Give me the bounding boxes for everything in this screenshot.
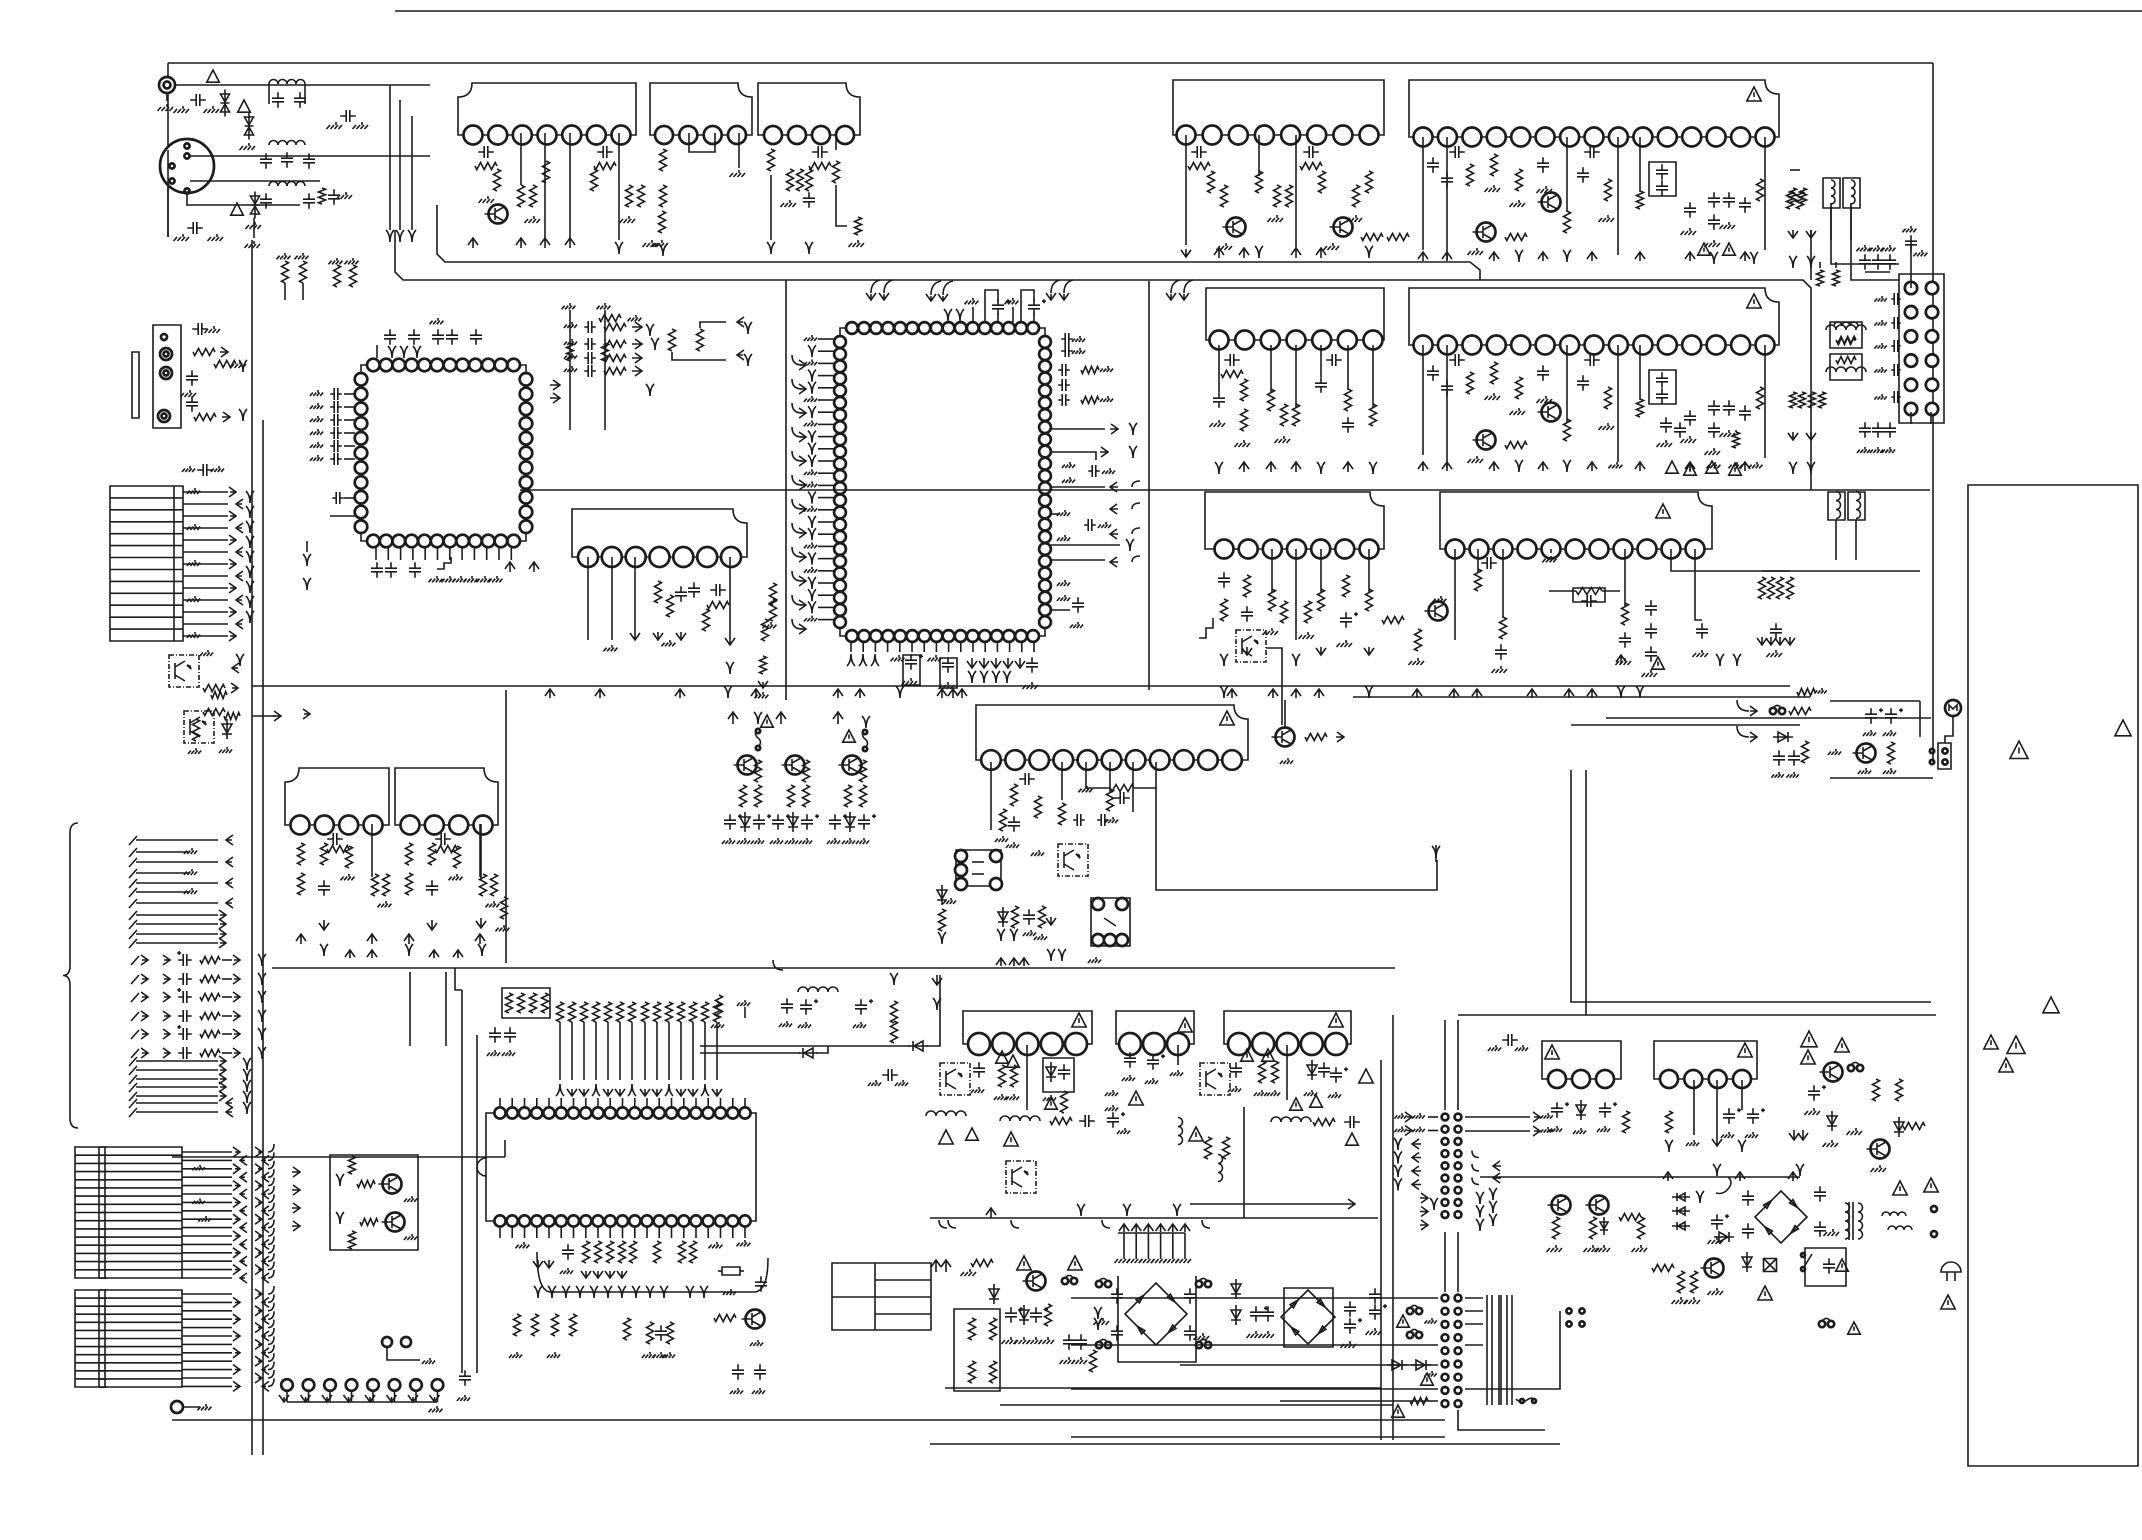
wire arrow [387,1395,397,1402]
IC IC402 body [1116,1011,1194,1044]
capacitor C102 [330,414,342,426]
CN3 key ticks [99,1290,107,1387]
ground [804,506,817,512]
capacitor C44 [1441,172,1453,188]
ground [1163,1256,1179,1263]
wire fork [767,242,775,254]
wire arrow [273,711,281,721]
wire fork [744,322,752,334]
ground [1210,420,1226,427]
wire hook [268,1303,274,1311]
wire [136,1095,218,1097]
inductor Lx7 [1888,1226,1912,1230]
wire [609,1227,611,1238]
resistor R84 [1836,337,1856,344]
wire [935,642,937,652]
wire [818,521,834,523]
wire fork [754,712,762,724]
wire [818,338,834,340]
wire [930,1217,1378,1219]
ground [231,361,247,368]
wire arrow [1587,252,1597,261]
wire [136,902,218,904]
resistor R166 [939,909,946,931]
wire fork [303,554,311,566]
warning symbol [1999,1058,2013,1072]
wire [818,533,834,535]
ground [245,241,261,248]
wire [344,497,355,499]
resistor R113 [334,265,341,287]
warning symbol [761,715,774,727]
wire arrow [799,408,806,418]
wire branch [1184,280,1193,293]
wire arrow [233,1029,240,1039]
line start [129,1092,137,1101]
ground [1883,768,1896,774]
wire [1132,762,1134,812]
resistor R36 [990,1318,997,1340]
wire fork [726,662,734,674]
resistor R74 [1370,404,1377,426]
ground [562,303,576,309]
fuse F7 [1196,1339,1211,1348]
capacitor C116 [1061,333,1073,345]
ground [1217,243,1233,250]
wire [1071,1436,1445,1438]
capacitor C2 [272,92,284,108]
wire arrow [262,1273,269,1283]
inductor Lx8 [1831,180,1835,204]
wire [287,1401,437,1403]
resistor R44 [1256,171,1263,193]
resistor R101 [1500,617,1507,639]
wire arrow [1538,252,1548,261]
capacitor C90 [1770,623,1782,639]
resistor R62 [1797,191,1804,209]
resistor R144 [406,843,413,865]
inductor Lx9 [1851,180,1855,204]
wire arrow [476,918,486,928]
wire arrow [292,1185,300,1195]
capacitor C50 [1684,202,1696,218]
wire arrow [262,1314,269,1324]
diode D21 [998,907,1008,927]
resistor R37 [969,1361,976,1383]
ground [604,645,618,651]
wire arrow [931,1260,941,1272]
wire fork [1738,1140,1746,1152]
wire [744,1007,746,1018]
wire [818,570,834,572]
resistor R202 [619,1241,626,1263]
wire arrow [1110,482,1118,492]
capacitor C12 [478,146,494,158]
capacitor C133 [426,880,438,896]
ground [205,326,221,333]
bridge rectifier BR1 [1125,1283,1187,1345]
wire arrow [550,393,560,403]
wire arrow [758,681,768,688]
wire [166,93,168,101]
resistor R85 [1836,357,1856,364]
ground [489,576,503,582]
wire branch [792,379,802,389]
wire [182,1218,232,1220]
wire fork [808,528,816,540]
ground [310,416,323,422]
wire [836,185,847,226]
resistor R21 [193,349,215,356]
wire [372,1391,374,1402]
wire arrow [279,1395,289,1402]
capacitor C144 [1097,814,1109,826]
wire [926,975,940,1046]
wire arrow [344,1395,354,1402]
resistor R116 [300,261,307,283]
resistor R130 [707,602,729,609]
capacitor C165 [754,1364,766,1380]
capacitor C27 [1030,1307,1048,1323]
capacitor C75 [1708,400,1720,416]
ground [429,576,443,582]
wire [136,891,190,893]
wire [437,547,439,560]
ground [341,874,355,880]
wire [695,1227,697,1238]
wire fork [246,596,254,608]
bot frame [903,655,920,685]
line start [129,869,137,878]
ground [184,888,197,894]
wire [1295,345,1297,407]
fuse F5 [1096,1339,1111,1348]
resistor R219 [200,957,220,964]
wire [1177,1045,1179,1065]
ground [1874,367,1886,373]
diode D8 [1672,1207,1690,1215]
ground [1117,1128,1130,1134]
wire arrow [1242,647,1252,655]
wire arrow [1291,689,1301,698]
wire [1123,1233,1125,1256]
wire arrow [255,1231,262,1241]
wire arrow [229,487,236,497]
wire arrow [1489,462,1499,471]
resistor R114 [350,265,357,287]
ground [1057,535,1070,541]
resistor R103 [1622,603,1629,625]
wire [707,1098,709,1107]
wire fork [1077,1204,1085,1216]
capacitor C18 [186,396,198,412]
wire arrow [1316,647,1326,655]
ground [1871,1165,1887,1172]
wire arrow [236,571,243,581]
wire [1353,696,1810,698]
capacitor C130 [327,833,343,845]
line start [131,1049,139,1058]
IC IC205 body [1205,492,1384,549]
wire [1639,345,1641,400]
wire arrow [632,353,642,363]
wire arrow [141,955,148,965]
resistor R156 [788,785,795,807]
wire fork [808,382,816,394]
wire hook [268,1362,274,1370]
wire fork [246,521,254,533]
wire [524,1098,526,1107]
capacitor C121 [1088,465,1100,477]
wire arrow [233,1181,240,1191]
ground [709,1242,723,1248]
wire [1021,642,1023,652]
ground [1280,758,1293,764]
wire [394,1391,396,1402]
ground [1537,396,1553,403]
capacitor C138 [829,814,847,830]
ground [1102,468,1115,474]
resistor R46 [1286,185,1293,207]
wire [818,350,834,352]
ground [1883,730,1896,736]
wire arrow [1181,249,1191,257]
wire arrow [240,1206,247,1216]
wire arrow [879,293,889,300]
ground [327,122,343,129]
resistor R83 [1733,432,1740,448]
wire arrow [1143,1224,1153,1232]
wire fork [659,244,667,256]
wire arrow [545,689,555,698]
wire [1932,748,1934,762]
wire fork [1394,1138,1402,1150]
ground [429,1406,443,1412]
warning symbol [1178,1018,1192,1032]
ground [404,1196,417,1202]
wire arrow [229,631,236,641]
wire [1830,700,1920,702]
wire [899,642,901,652]
wire fork [1129,423,1137,435]
wire arrow [163,1029,170,1039]
capacitor C61 [1326,354,1342,366]
wire fork [1796,1164,1804,1176]
capacitor C128 [688,582,700,598]
inductor Lx10 [1826,325,1866,330]
resistor R92 [1269,589,1276,611]
ground [804,616,817,622]
wire fork [534,1286,542,1298]
wire arrow [233,1214,240,1224]
ground [737,838,750,844]
resistor R196 [690,1002,697,1022]
wire hook [268,1236,274,1244]
wire [1458,1410,1545,1430]
wire [190,180,320,182]
wire arrow [262,1206,269,1216]
wire fork [808,492,816,504]
wire [583,1022,585,1080]
wire arrow [404,934,414,944]
resistor R143 [435,846,457,853]
wire fork [1123,1204,1131,1216]
wire [182,1151,232,1153]
inductor Lx4 [1845,1203,1850,1239]
wire [1243,1107,1245,1218]
wire [1372,345,1374,407]
ground [1913,250,1927,256]
wire arrow [1785,637,1795,645]
wire [1500,1295,1502,1405]
wire [1033,642,1035,652]
ground [1267,1090,1280,1096]
wire fork [980,671,988,683]
wire arrow [1587,462,1597,471]
wire [183,587,228,589]
IC IC206 body [1440,492,1712,549]
warning symbol [1738,1043,1752,1057]
resistor R224 [200,1050,220,1057]
resistor R216 [360,1219,378,1226]
wire arrow [1345,1199,1355,1209]
wire [1218,345,1220,392]
ground [849,240,865,247]
wire fork [1476,1219,1484,1231]
wire arrow [219,1065,226,1075]
resistor R167 [1012,906,1019,928]
ground [798,1022,811,1028]
ground [1259,1331,1275,1338]
line start [131,1012,139,1021]
ground [310,455,323,461]
wire [504,1140,506,1157]
IC IC502 pins [1660,1070,1751,1088]
DIN pin [184,143,189,148]
wire [622,1098,624,1107]
transistor Q10 [1473,223,1496,242]
wire arrow [427,920,437,930]
wire arrow [468,238,478,248]
capacitor C1 [190,94,206,106]
ground [1595,1245,1611,1252]
wire [1571,724,1800,726]
resistor R39 [1045,1304,1052,1326]
wire arrow [1616,655,1626,664]
wire [251,240,253,1455]
wire arrow [229,583,236,593]
wire arrow [1493,1173,1501,1183]
ground [430,318,444,324]
resistor R72 [1293,404,1300,426]
wire [672,352,726,360]
resistor R136 [327,846,349,853]
wire arrow [240,1189,247,1199]
inductor Lx3 [269,182,305,187]
wire [344,393,355,395]
ground [1039,1337,1055,1344]
wire [222,1033,232,1035]
wire [411,116,413,230]
warning symbol [996,1051,1009,1063]
wire fork [660,1286,668,1298]
wire branch [792,355,802,365]
capacitor C41 [1303,146,1319,158]
wire arrow [1806,230,1816,238]
resistor R8 [638,185,645,207]
wire arrow [236,523,243,533]
ground [1857,447,1870,453]
wire [1855,520,1857,560]
wire [634,557,636,632]
inductor Lx15 [926,1111,966,1116]
warning symbol [1723,243,1736,255]
ground [1023,930,1036,936]
wire [631,1022,633,1080]
IC IC103 pins [764,126,854,144]
wire fork [808,406,816,418]
capacitor C157 [1344,1116,1360,1128]
ground [487,1050,500,1056]
wire arrow [1587,689,1597,698]
capacitor C30 [1111,1288,1123,1304]
capacitor C169 [177,988,192,1003]
ground [1720,222,1736,229]
capacitor C32 [1184,1288,1196,1304]
resistor R66 [1833,270,1840,286]
wire [1051,609,1070,611]
resistor R200 [595,1241,602,1263]
capacitor C29 [1075,1334,1087,1350]
wire hook [268,1245,274,1253]
ground [730,170,746,177]
wire [700,1052,800,1054]
resistor R138 [298,873,305,895]
ground [1105,1090,1118,1096]
transistor Q16 [1853,744,1876,763]
wire hook [268,1186,274,1194]
capacitor C98 [446,329,458,345]
ground [1728,462,1742,468]
wire [720,1098,722,1107]
wire [511,1227,513,1238]
capacitor C87 [1645,623,1657,639]
wire arrow [799,624,806,634]
ground [653,1352,666,1358]
capacitor C49 [1656,180,1668,196]
wire [1380,1060,1382,1440]
wire arrow [1635,252,1645,261]
inductor Lx19 [1271,1117,1311,1122]
wire [136,1111,218,1113]
IC IC306 (DIP) body [486,1113,756,1221]
wire [818,484,834,486]
wire fork [1003,671,1011,683]
capacitor C9 [303,193,315,209]
transistor Q5 [1820,1063,1843,1082]
wire [1506,1295,1508,1405]
wire [286,1391,288,1402]
capacitor C80 [1241,606,1253,622]
wire arrow [1239,248,1249,258]
wire [1051,544,1120,546]
wire arrow [1798,1130,1808,1140]
IC IC303 body [572,509,747,557]
CN2 key ticks [99,1147,107,1278]
capacitor C134 [724,814,742,830]
wire [1835,520,1837,560]
IC IC101 pins [464,126,631,145]
